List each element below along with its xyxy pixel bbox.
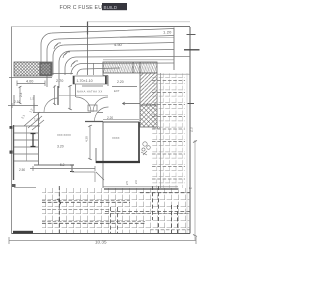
svg-text:2.50: 2.50 (19, 168, 25, 172)
verandah dim line (30, 166, 95, 171)
svg-text:1.70×1.10: 1.70×1.10 (77, 79, 93, 83)
tree symbol (141, 142, 150, 155)
corridor wall upper (33, 112, 103, 114)
grid yard bottom strip (42, 188, 190, 233)
room top wall (82, 85, 137, 88)
medium grid rows (42, 201, 190, 230)
svg-text:EXT: EXT (114, 89, 120, 93)
svg-text:2.5: 2.5 (125, 181, 129, 185)
svg-text:4.50: 4.50 (114, 42, 123, 47)
retaining wall line (104, 188, 178, 190)
border frame top (12, 26, 61, 28)
darker grid horizontals right column (152, 81, 185, 180)
toilet top wall (52, 73, 73, 75)
faint inner border line right (186, 73, 188, 233)
svg-text:5.2: 5.2 (60, 163, 65, 167)
door jamb below box (75, 84, 77, 97)
stair dimension line top (8, 103, 38, 108)
svg-text:FOR C FUSE EU: FOR C FUSE EU (60, 5, 103, 11)
stair node blob lower (10, 151, 13, 154)
ledge line under block (9, 77, 52, 79)
svg-text:10.35: 10.35 (95, 240, 107, 245)
svg-text:XXXX: XXXX (112, 136, 120, 140)
road edge vertical through arcs (87, 35, 89, 76)
svg-text:NAHA HATHA XX: NAHA HATHA XX (77, 90, 103, 94)
stair left wall (13, 125, 15, 180)
door jamb small rect (88, 105, 97, 111)
right room bottom wall dark (96, 161, 140, 163)
left wall lower mark (12, 184, 16, 187)
svg-text:2.0: 2.0 (134, 180, 138, 184)
road end vertical (173, 28, 175, 71)
svg-text:2: 2 (189, 187, 193, 189)
svg-text:4.20: 4.20 (85, 136, 89, 142)
stair rail line (26, 126, 28, 161)
stair upper flight diagonals (24, 112, 44, 130)
door arc pair right (93, 97, 108, 112)
svg-text:2.10: 2.10 (14, 100, 20, 104)
svg-text:4.00: 4.00 (26, 80, 33, 84)
house top-left wall from road (103, 62, 108, 76)
svg-text:5.00: 5.00 (153, 126, 160, 130)
grid yard right column (152, 73, 185, 188)
pole at top (87, 22, 89, 35)
band dividers (133, 62, 140, 73)
stair node blob (10, 126, 13, 129)
border frame bottom (12, 233, 191, 235)
border frame left (11, 27, 13, 234)
svg-text:XXX XXXX: XXX XXXX (57, 133, 71, 137)
upper-left wall stub (33, 95, 35, 113)
arc landing stubs (46, 75, 48, 87)
title highlight box (102, 3, 127, 10)
bottom dimension line (9, 240, 196, 242)
toilet label box (73, 76, 107, 84)
right room left wall (102, 122, 104, 163)
svg-text:2.0: 2.0 (190, 127, 194, 132)
right room right wall dark (138, 122, 140, 163)
top-left hatched wall block (14, 62, 52, 76)
dim 1.10 right band (123, 102, 141, 105)
vertical dim below block (19, 86, 22, 104)
compound wall inner line (160, 73, 162, 188)
right border tick lower (184, 49, 200, 51)
corridor wall lower (85, 121, 103, 123)
border frame right (189, 27, 191, 234)
right room top wall (103, 121, 139, 123)
svg-text:1.10: 1.10 (144, 103, 150, 107)
upper faint line above border (88, 21, 190, 23)
svg-text:1.20: 1.20 (163, 30, 172, 35)
grid top edge line (157, 73, 190, 75)
bottom-left dark bar (13, 231, 33, 234)
dark patch in block (40, 63, 51, 75)
top hatched wall band (103, 62, 157, 73)
door arc far left (44, 98, 58, 112)
right extension line (194, 140, 196, 240)
door lintel line (58, 95, 108, 97)
left room left wall (38, 113, 40, 166)
svg-text:2.1: 2.1 (20, 114, 26, 120)
left vertical dim 2.70 (53, 86, 56, 106)
verandah diagonal (96, 172, 104, 180)
svg-text:BUILD: BUILD (104, 5, 118, 10)
stair wall top stub (13, 95, 15, 106)
stair treads (14, 126, 40, 161)
left lower ledge (14, 187, 36, 189)
svg-text:2.20: 2.20 (117, 80, 124, 84)
dimension 4.00 under block (17, 81, 45, 87)
gate vertical (93, 63, 95, 75)
road lane lines with rounded corners (41, 29, 190, 76)
right room vertical dim (88, 125, 92, 160)
svg-text:2.70: 2.70 (56, 79, 63, 83)
vertical dim line toilet (68, 85, 72, 110)
verandah dark tick (70, 165, 74, 173)
wall between rooms (95, 148, 97, 163)
grid blob mark (57, 199, 61, 204)
right hatched wall band lower cross (140, 105, 157, 127)
right border tick upper (187, 34, 196, 36)
door arc hall (95, 107, 109, 121)
svg-text:3.20: 3.20 (57, 145, 64, 149)
sonic arc marks (54, 43, 78, 67)
dark dashed verticals bottom (59, 186, 177, 233)
right hatched wall band (140, 73, 157, 105)
verandah wall (102, 163, 104, 188)
door arc pair left (76, 97, 91, 112)
darker grid lines bottom strip (42, 193, 190, 224)
verandah step wall (72, 165, 95, 182)
left room bottom wall (34, 164, 72, 166)
wall left of toilet (57, 86, 59, 105)
stair arrow (32, 133, 34, 147)
right border tick mid (188, 103, 195, 105)
svg-text:2.4: 2.4 (19, 92, 23, 97)
